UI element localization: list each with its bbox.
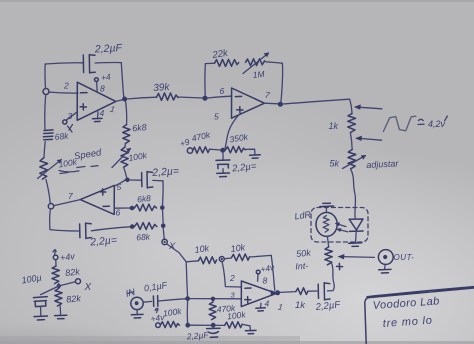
resistor 100k (+4v feed) bbox=[160, 321, 179, 327]
svg-text:1k: 1k bbox=[329, 121, 339, 131]
capacitor 100u (electrolytic) bbox=[33, 297, 47, 298]
svg-text:OUT-: OUT- bbox=[394, 253, 415, 262]
wire bottom loop to capacitor C2 bbox=[50, 230, 79, 231]
wire 350k to ground bbox=[245, 149, 255, 154]
wire C4 to ground bbox=[222, 169, 224, 173]
svg-text:2,2µF: 2,2µF bbox=[185, 330, 209, 342]
wire node D down (feedback loop bottom) bbox=[49, 209, 52, 230]
wire node R to X2 bbox=[59, 282, 76, 286]
potentiometer 100k (right gang) bbox=[121, 147, 128, 167]
node X1 (open circle with X label) bbox=[162, 239, 167, 244]
wire node F to capacitor C3 bbox=[130, 179, 141, 181]
svg-text:2: 2 bbox=[63, 81, 69, 91]
node D (U1b output node, open circle) bbox=[48, 204, 53, 209]
pin 4 stub U1d bbox=[260, 303, 262, 307]
ground tick under C6 bbox=[210, 336, 217, 338]
ground under 82k bottom bbox=[55, 315, 67, 319]
LED D1 (triangle down) bbox=[349, 219, 363, 230]
ground under pin 4 U1d bbox=[256, 308, 265, 311]
svg-text:6k8: 6k8 bbox=[137, 193, 152, 205]
pin 6 wire to node H bbox=[114, 207, 130, 209]
wire C2 to node G bbox=[91, 227, 130, 231]
wire 39k to node C bbox=[178, 97, 203, 98]
node P (bottom rail left) bbox=[185, 323, 190, 328]
wire top feedback rail to capacitor C1 bbox=[45, 63, 82, 64]
LED light arrows to LDR bbox=[337, 224, 348, 232]
wire top rail to 22k bbox=[205, 62, 214, 64]
wiper arrow of trimmer 1M bbox=[243, 53, 269, 74]
pin 3 stub and circle bbox=[66, 112, 77, 120]
squiggly wire 5k pot down to LED bbox=[351, 169, 356, 218]
wire node M to 10k2 bbox=[224, 257, 231, 260]
svg-text:3: 3 bbox=[68, 111, 73, 121]
arrow (signal in) upper bbox=[358, 107, 382, 109]
capacitor C2 2,2uF (U1b feedback) bbox=[79, 224, 81, 238]
potentiometer 5k adjust bbox=[348, 150, 356, 169]
svg-text:10k: 10k bbox=[194, 243, 210, 255]
svg-text:4,2v: 4,2v bbox=[428, 119, 446, 129]
resistor 82k (bottom) bbox=[55, 288, 62, 306]
capacitor C6 2,2uF (under bottom rail) bbox=[212, 325, 214, 327]
trimmer 1M bbox=[246, 59, 265, 66]
ground right of 350k bbox=[250, 155, 261, 158]
waveform annotation bbox=[383, 116, 415, 131]
wire left column: node A down to 68k bbox=[44, 95, 47, 130]
svg-text:82k: 82k bbox=[65, 266, 81, 278]
bottom rail from node L column bbox=[186, 301, 188, 325]
wire C1 to output column bbox=[95, 62, 121, 64]
svg-text:2,2µF: 2,2µF bbox=[94, 42, 123, 55]
capacitor C1 2,2uF (feedback of U1a) bbox=[82, 55, 84, 73]
wire C5 to node L bbox=[158, 299, 185, 301]
wire node E to LED column bbox=[283, 99, 350, 104]
wire corner down to node L bbox=[186, 262, 187, 297]
pin 4 stub bbox=[97, 112, 99, 118]
wire trimmer to right, down to node E bbox=[264, 62, 282, 64]
svg-text:68k: 68k bbox=[136, 232, 151, 243]
minus sign U1b bbox=[103, 205, 109, 207]
resistor 68k (horizontal, on bottom wire) bbox=[135, 223, 157, 230]
svg-text:6: 6 bbox=[220, 86, 225, 96]
node R (bias center) bbox=[57, 284, 61, 288]
pin 2 wire from node M down to U1d minus input bbox=[222, 262, 241, 288]
plus sign U1d bbox=[245, 297, 251, 303]
bias divider: +4v node bbox=[53, 255, 58, 260]
resistor 39k bbox=[157, 93, 179, 100]
OUT jack J2 bbox=[378, 250, 393, 265]
resistor 1k (vertical) bbox=[348, 114, 356, 133]
resistor 22k bbox=[215, 59, 239, 66]
svg-text:2,2µ=: 2,2µ= bbox=[151, 165, 180, 179]
svg-text:X: X bbox=[84, 282, 92, 293]
svg-text:82k: 82k bbox=[66, 293, 82, 304]
plus mark near wiper bbox=[337, 263, 343, 269]
op-amp U1d triangle bbox=[241, 281, 276, 307]
wire +4v to 82k top bbox=[55, 260, 57, 266]
wire 10k2 feedback to U1d output bbox=[250, 255, 272, 257]
svg-text:4: 4 bbox=[265, 299, 270, 309]
node G (bottom wire junction) bbox=[130, 224, 135, 229]
resistor 100k (bottom, to ground) bbox=[225, 322, 243, 328]
node +9 (open circle) bbox=[187, 148, 192, 153]
svg-text:10k: 10k bbox=[230, 242, 246, 254]
plus sign U1c bbox=[237, 107, 243, 113]
wire U1b output to node D bbox=[54, 200, 80, 206]
resistor 470k bbox=[193, 147, 210, 153]
resistor 82k (top) bbox=[52, 266, 59, 284]
svg-text:39k: 39k bbox=[153, 82, 171, 94]
feedback rail up from node C bbox=[204, 64, 206, 96]
svg-text:6k8: 6k8 bbox=[132, 122, 147, 133]
resistor 1k (output) bbox=[296, 288, 308, 295]
wire down from top rail to U1a output node bbox=[121, 63, 124, 98]
wire 100k to ground bbox=[242, 324, 250, 330]
wire corner to 10k #1 bbox=[186, 261, 198, 262]
scribble tick under pin 3 bbox=[68, 125, 73, 133]
node X2 (open circle with X label) bbox=[76, 279, 81, 284]
wiper arrow from OUT jack to 50k pot bbox=[342, 256, 375, 259]
node F (junction pot / pin5 / C3) bbox=[125, 178, 130, 183]
project box "Voodoo Lab tremolo" bbox=[365, 287, 474, 344]
optocoupler dashed box bbox=[311, 208, 368, 243]
svg-text:68k: 68k bbox=[54, 131, 69, 142]
capacitor C3 2,2uF (horizontal mid) bbox=[141, 173, 143, 187]
potentiometer 50k INT (vertical) bbox=[325, 247, 333, 265]
node K (bias junction 470k/350k/C4) bbox=[220, 148, 225, 153]
wiper arrow of 100k pot bbox=[112, 149, 131, 168]
node B (U1a output, filled) bbox=[122, 97, 127, 102]
LED cathode bar bbox=[349, 230, 363, 232]
node J (right column at 68k) bbox=[161, 224, 166, 229]
LDR top lead and supply bar bbox=[325, 207, 327, 212]
node on pin3 wire at 470k top bbox=[211, 297, 215, 301]
ground under LED bbox=[349, 243, 362, 247]
wire node B to resistor 39k bbox=[127, 97, 157, 99]
column under node B: wire down to 6k8 vertical bbox=[126, 102, 127, 125]
wire node C to U1c inverting input bbox=[208, 96, 232, 98]
svg-text:50k: 50k bbox=[296, 247, 312, 259]
wire 1k to 5k pot bbox=[350, 133, 352, 150]
node I (right column at 6k8) bbox=[160, 205, 165, 210]
svg-text:2,2µ=: 2,2µ= bbox=[89, 234, 118, 248]
capacitor C4 2,2uF (to ground) bbox=[216, 160, 230, 169]
wire node K down to capacitor C4 bbox=[222, 153, 224, 159]
wiper arrow of 5k pot bbox=[343, 156, 366, 169]
capacitor C5 0,1uF (input coupling) bbox=[153, 296, 158, 307]
svg-text:6: 6 bbox=[116, 208, 121, 218]
wire 6k8 to 100k pot bbox=[124, 144, 126, 148]
wire node A to U1a inverting input bbox=[49, 92, 78, 93]
svg-text:2: 2 bbox=[229, 273, 235, 283]
LED lead down bbox=[355, 231, 358, 241]
svg-text:1M: 1M bbox=[252, 69, 266, 80]
LDR bottom lead bbox=[327, 236, 328, 246]
pin 8 stub and supply U1d bbox=[257, 274, 259, 281]
wire C7 to 1k bbox=[308, 290, 318, 292]
gang dashes between pots bbox=[60, 166, 98, 174]
wire C3 to right column bbox=[153, 179, 163, 181]
wire 100u to ground bbox=[40, 306, 42, 315]
op-amp U1b triangle (pointing left) bbox=[80, 185, 114, 214]
svg-text:8: 8 bbox=[100, 84, 105, 94]
minus sign U1d bbox=[245, 287, 251, 289]
svg-text:7: 7 bbox=[68, 191, 73, 201]
wire node A up left feedback rail bbox=[44, 64, 47, 89]
squiggly wire 50k pot bottom down to C7 bbox=[328, 263, 335, 291]
svg-text:8: 8 bbox=[263, 276, 268, 286]
wiper arrow of speed pot bbox=[38, 160, 62, 179]
wire node R to capacitor 100u bbox=[41, 286, 59, 295]
resistor 350k bbox=[225, 146, 245, 152]
node A (inverting input node of U1a, open circle) bbox=[43, 89, 49, 95]
svg-text:1k: 1k bbox=[295, 300, 306, 311]
node E (U1c output, filled) bbox=[278, 102, 283, 107]
minus sign U1a bbox=[81, 92, 88, 94]
pin 8 stub, supply bbox=[96, 82, 99, 92]
svg-text:adjustar: adjustar bbox=[366, 158, 399, 170]
ground under 100u bbox=[34, 316, 47, 320]
right column wire segments bbox=[162, 181, 165, 206]
svg-text:5: 5 bbox=[214, 112, 219, 122]
label ~4,2V bbox=[418, 119, 424, 124]
svg-text:5k: 5k bbox=[330, 159, 340, 169]
resistor 470k (vertical) bbox=[212, 301, 214, 302]
ground under pin 4 bbox=[93, 118, 103, 121]
wire 68k down to speed pot bbox=[44, 142, 45, 158]
node M (between 10k resistors) bbox=[219, 257, 224, 262]
resistor 10k #2 bbox=[231, 254, 249, 261]
node Q (bottom rail at C6) bbox=[211, 323, 216, 328]
resistor 6k8 (horizontal) bbox=[134, 204, 156, 211]
LDR R-ldr circle bbox=[316, 212, 337, 236]
capacitor C7 2,2uF (output coupling) bbox=[317, 284, 319, 298]
wire speed pot to node D bbox=[46, 180, 50, 204]
IN jack J1 bbox=[131, 297, 143, 309]
+4v feed node (open circle) bbox=[156, 323, 161, 328]
ground under C4 bbox=[217, 173, 230, 177]
resistor 10k #1 bbox=[198, 257, 216, 264]
resistor 68k (left column, scribbled) bbox=[43, 130, 53, 140]
arrow (wiper tap) lower bbox=[359, 138, 381, 140]
wire U1a output to node B bbox=[116, 100, 123, 102]
op-amp U1c triangle bbox=[232, 88, 265, 118]
svg-text:4: 4 bbox=[100, 108, 105, 118]
potentiometer 100k Speed (left) bbox=[40, 158, 48, 180]
wire U1c output to node E bbox=[264, 102, 278, 105]
resistor 6k8 (vertical under node B) bbox=[123, 125, 130, 144]
ground under OUT jack bbox=[384, 265, 387, 269]
svg-text:Int-: Int- bbox=[295, 261, 309, 272]
svg-text:+4v: +4v bbox=[59, 251, 76, 263]
node N (U1d output) bbox=[275, 290, 280, 295]
ground right of 100k bbox=[245, 330, 256, 333]
LDR internal zigzag bbox=[323, 216, 329, 233]
wire IN jack to C5 bbox=[143, 300, 151, 303]
node C (U1b inverting input node) bbox=[202, 96, 207, 101]
plus sign U1a bbox=[80, 104, 86, 110]
pin 3 wire from node L to U1d plus input bbox=[190, 298, 241, 300]
pin 5 wire of U1c down to node K bbox=[225, 115, 239, 148]
plus sign U1b bbox=[100, 189, 106, 195]
wire 1k to U1d output bbox=[280, 291, 296, 294]
op-amp U1a triangle bbox=[77, 82, 116, 120]
wire pot down to node F bbox=[124, 167, 127, 178]
wire 470k to node K bbox=[210, 148, 221, 151]
wire 82k bottom to ground bbox=[59, 306, 61, 315]
node H bbox=[130, 206, 135, 211]
node L (U1d non-inverting junction) bbox=[185, 296, 190, 301]
wire node X1 diagonal to bottom block corner bbox=[167, 244, 186, 262]
bottom rail wire bbox=[190, 324, 225, 326]
pin 5 wire up to node F bbox=[114, 179, 127, 186]
svg-text:+4: +4 bbox=[100, 71, 112, 83]
ground under IN jack bbox=[136, 310, 138, 314]
minus sign U1c bbox=[235, 95, 241, 97]
